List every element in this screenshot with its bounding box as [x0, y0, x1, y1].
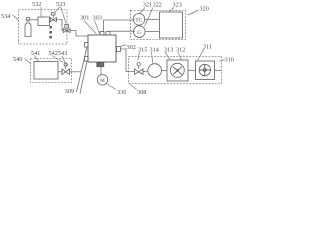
trap 314 (circle)	[148, 64, 162, 78]
svg-text:314: 314	[150, 47, 159, 54]
wire regulator to valve 533	[49, 19, 52, 21]
gauge G circle 322	[134, 26, 146, 38]
valve 535	[63, 29, 70, 33]
leader for 301	[84, 21, 97, 35]
wire TC to controller	[145, 18, 159, 20]
wire G to controller	[145, 31, 159, 33]
svg-text:303: 303	[93, 15, 102, 22]
svg-text:532: 532	[32, 1, 41, 8]
leader for 313	[165, 52, 170, 60]
svg-text:323: 323	[173, 1, 182, 8]
dashed box 530 (gas supply unit)	[19, 10, 68, 45]
booster pump 313 (square with rotor)	[167, 60, 188, 81]
leader for 543	[62, 56, 67, 66]
wire bottle to regulator 532	[30, 19, 38, 21]
dashed box 540 (liquid supply unit)	[31, 59, 72, 83]
leader for 541	[35, 56, 39, 62]
svg-text:312: 312	[176, 47, 185, 54]
wire valve 535 to tank inlet	[70, 31, 88, 36]
leader for 534	[13, 16, 19, 22]
left flange lower on tank	[85, 57, 89, 62]
svg-text:M: M	[100, 78, 105, 84]
leader for 322	[145, 8, 154, 27]
valve 315	[135, 69, 144, 74]
drain pipe lower (to 309)	[80, 61, 87, 94]
tank 541 (square vessel)	[34, 62, 58, 80]
dashed box 320 (measurement unit)	[131, 11, 186, 40]
gas bottle 531	[25, 20, 31, 37]
drain pipe upper (to 309)	[77, 47, 88, 92]
svg-text:534: 534	[1, 13, 10, 20]
port stub 301	[100, 32, 104, 36]
svg-text:541: 541	[31, 50, 40, 57]
svg-text:G: G	[137, 30, 141, 36]
dashed box 310 (exhaust unit)	[129, 57, 222, 84]
leader for 311	[198, 49, 205, 61]
leader for 532	[40, 7, 42, 17]
svg-text:TC: TC	[135, 18, 142, 24]
wire pump 313 to pump 312	[188, 70, 195, 72]
bottle cap	[26, 18, 29, 20]
svg-text:322: 322	[153, 1, 162, 8]
left flange upper on tank	[85, 43, 89, 48]
leader for 302	[121, 45, 126, 46]
svg-text:310: 310	[225, 57, 234, 64]
leader for 320	[188, 10, 199, 15]
bottom flange on tank	[97, 63, 104, 67]
wire valve 542 out to drain line	[70, 71, 82, 73]
valve 533	[50, 18, 56, 22]
svg-text:308: 308	[137, 89, 146, 96]
svg-text:309: 309	[65, 88, 74, 95]
leader for 315	[138, 52, 140, 61]
leader for 533	[55, 7, 66, 24]
vacuum pump 312 (square with cross rotor)	[196, 61, 215, 80]
svg-text:311: 311	[203, 43, 212, 50]
ellipsis dots (more gas lines)	[49, 26, 52, 29]
regulator box 532	[38, 17, 50, 26]
wire valve to trap circle	[143, 70, 148, 73]
leader for 308	[130, 84, 137, 90]
leader for 310	[220, 60, 225, 62]
leader for 314	[152, 52, 153, 63]
wire trap to pump 313	[162, 70, 168, 72]
wire port to TC gauge	[104, 20, 135, 32]
leader for 323	[168, 8, 174, 13]
leader for 542	[52, 56, 63, 63]
svg-text:540: 540	[13, 56, 22, 63]
wire 302 pipe to exhaust box	[121, 49, 135, 72]
right stub flange 302 on tank	[117, 47, 121, 52]
svg-text:543: 543	[58, 50, 67, 57]
port stub 303	[106, 32, 110, 36]
leader for 312	[178, 52, 182, 61]
wire pump 312 to box edge	[215, 70, 222, 72]
wire vessel to valve 542	[58, 71, 62, 73]
svg-text:302: 302	[127, 44, 136, 51]
leader for 330	[107, 84, 117, 90]
svg-text:321: 321	[143, 1, 152, 8]
wire valve 533 to valve 535	[56, 20, 63, 31]
wire flange to pump 330	[100, 67, 102, 75]
svg-text:320: 320	[200, 6, 209, 13]
leader for 540	[25, 59, 31, 64]
leader for 303	[95, 21, 100, 34]
leader for 321	[140, 8, 146, 14]
valve 542	[62, 69, 70, 75]
controller box 323	[160, 12, 183, 38]
svg-text:330: 330	[117, 89, 126, 96]
reaction chamber 300 (tank)	[88, 35, 116, 62]
wire port to G gauge	[110, 30, 135, 32]
gauge TC circle 321	[133, 13, 145, 25]
svg-text:301: 301	[80, 15, 89, 22]
pump 330 (circle)	[97, 75, 107, 85]
